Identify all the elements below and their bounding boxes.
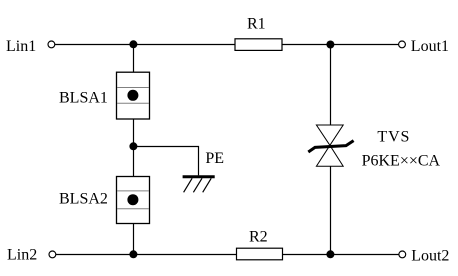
svg-text:TVS: TVS — [377, 128, 410, 145]
svg-text:P6KE××CA: P6KE××CA — [362, 153, 441, 170]
svg-text:PE: PE — [205, 150, 224, 167]
svg-text:Lout1: Lout1 — [411, 38, 449, 55]
svg-text:R2: R2 — [249, 228, 268, 245]
svg-text:BLSA2: BLSA2 — [59, 190, 108, 207]
svg-text:Lin2: Lin2 — [7, 247, 37, 264]
svg-text:Lin1: Lin1 — [6, 38, 36, 55]
svg-text:BLSA1: BLSA1 — [59, 90, 108, 107]
svg-text:R1: R1 — [247, 16, 266, 33]
svg-text:Lout2: Lout2 — [411, 248, 449, 265]
